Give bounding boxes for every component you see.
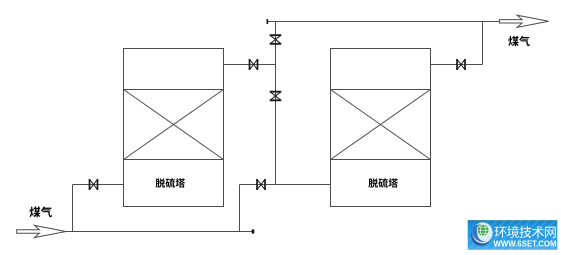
- clean gas outlet arrow: [499, 15, 548, 27]
- desulfurization tower T1 vessel outline: [124, 49, 224, 207]
- label 煤气 (outlet): [508, 36, 529, 46]
- valve V3 (manifold upper): [270, 35, 282, 44]
- wire: T1 outlet line: [224, 64, 276, 66]
- desulfurization tower T2 vessel outline: [331, 49, 431, 207]
- desulfurization tower T2 packing X diagonal 2: [331, 90, 431, 160]
- wire: raw gas inlet header: [66, 231, 254, 233]
- desulfurization tower T1 upper divider: [124, 89, 224, 91]
- watermark plate: [459, 220, 561, 250]
- valve V1 (T1 inlet): [90, 179, 98, 190]
- desulfurization tower T1 packing X diagonal 2: [124, 90, 224, 160]
- desulfurization tower T2 packing X diagonal 1: [331, 90, 431, 160]
- wire: riser to T1 inlet: [72, 185, 74, 232]
- inlet header end cap: [252, 229, 255, 233]
- wire: clean gas header: [267, 21, 499, 23]
- label 煤气 (inlet): [29, 207, 51, 218]
- wire: T2 outlet line: [431, 64, 483, 66]
- wire: T1 inlet line: [73, 184, 124, 186]
- label 脱硫塔 (T1): [156, 178, 186, 188]
- desulfurization tower T1 lower divider: [124, 159, 224, 161]
- wire: T2 inlet line: [240, 184, 331, 186]
- valve V5 (T2 inlet): [257, 179, 265, 190]
- watermark globe logo: [471, 222, 492, 245]
- wire: riser to T2 inlet: [239, 185, 241, 232]
- clean gas header end tick: [267, 19, 269, 24]
- svg-text:WWW.6SET.COM: WWW.6SET.COM: [494, 239, 557, 249]
- desulfurization tower T1 packing X diagonal 1: [124, 90, 224, 160]
- valve V6 (T2 outlet): [457, 59, 465, 70]
- desulfurization tower T2 lower divider: [331, 159, 431, 161]
- desulfurization tower T2 upper divider: [331, 89, 431, 91]
- wire: T2 outlet riser: [482, 22, 484, 65]
- watermark plate stripes: [459, 220, 561, 250]
- wire: crossover manifold vertical: [275, 22, 277, 185]
- valve V4 (manifold lower): [270, 92, 282, 101]
- watermark title 环境技术网: [495, 226, 556, 238]
- label 脱硫塔 (T2): [368, 178, 398, 188]
- raw gas inlet arrow: [17, 225, 66, 237]
- valve V2 (T1 outlet): [250, 59, 258, 70]
